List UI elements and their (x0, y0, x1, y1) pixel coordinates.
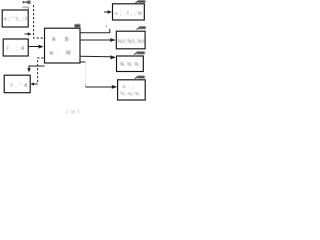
block L3 (bottom-left box) (4, 75, 30, 93)
block L1 (top-left input box) (2, 10, 28, 27)
block R4 (bottom-right output box, two text rows) (118, 80, 146, 100)
dashed wire from MCU left edge down to L3 right edge (38, 58, 44, 84)
svg-text:¾½½: ¾½½ (120, 61, 139, 68)
wire L2 to MCU with arrowhead (29, 46, 40, 48)
reference label 30 above R1 (136, 1, 139, 3)
svg-text:l.'4: l.'4 (11, 83, 27, 89)
reference label 50 above R3 (134, 53, 137, 55)
block R1 (top-right output box) (113, 4, 145, 20)
svg-text:A B: A B (52, 37, 69, 43)
svg-text:v;''t,;l: v;''t,;l (4, 17, 27, 23)
block R3 (third right output box) (117, 56, 144, 72)
wire MCU bottom to R4 (jog down) with arrowhead (80, 61, 86, 63)
svg-text:w. M: w. M (50, 51, 71, 57)
reference label 60 above R4 (135, 77, 138, 79)
wire MCU to R1 (jog up) (80, 29, 110, 33)
svg-text:l.;4: l.;4 (7, 46, 24, 52)
block L2 (middle-left input box) (3, 39, 28, 56)
small arrow under L1 pointing right (25, 33, 29, 35)
svg-text:«;.l,;½: «;.l,;½ (115, 10, 143, 17)
svg-text:(ω): (ω) (67, 109, 80, 115)
svg-text:A.;: A.; (123, 84, 134, 90)
wire MCU to R3 with arrowhead (80, 55, 111, 58)
reference label 10 above block L1 (23, 1, 28, 3)
block U1 central controller (MCU) (45, 28, 81, 63)
svg-text:¼l;½l,½l: ¼l;½l,½l (118, 38, 145, 45)
dashed wire from top down to MCU left side (34, 5, 44, 38)
reference label 20 at MCU top-right (75, 24, 81, 27)
wire from MCU bottom-left down to L3 top with down arrowhead (29, 66, 45, 69)
wire MCU to R2 with arrowhead (80, 39, 111, 41)
reference label 40 above R2 (137, 28, 140, 30)
svg-text:½.¼;¾: ½.¼;¾ (121, 90, 140, 97)
block R2 (second right output box) (116, 31, 145, 49)
